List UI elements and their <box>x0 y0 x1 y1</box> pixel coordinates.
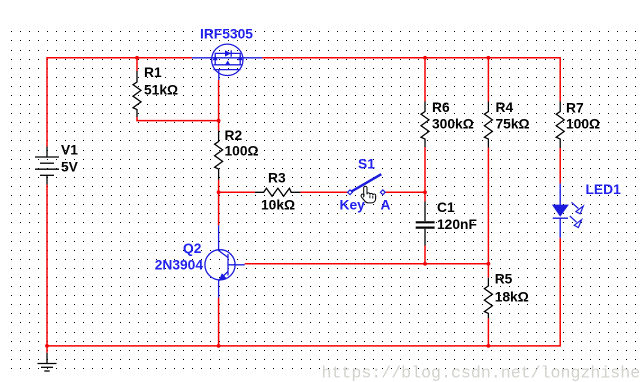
junction top rail / R6 <box>423 56 427 60</box>
junction top rail / R1 <box>135 56 139 60</box>
ground <box>38 353 57 371</box>
resistor R6 <box>421 102 429 148</box>
resistor R4 <box>484 102 492 148</box>
svg-text:300kΩ: 300kΩ <box>432 117 474 132</box>
junction base row / R4 / R5 <box>487 262 491 266</box>
transistor Q2 2N3904 (NPN) <box>205 225 245 297</box>
svg-text:R4: R4 <box>496 100 514 115</box>
svg-text:51kΩ: 51kΩ <box>144 82 178 97</box>
resistor R5 <box>484 278 492 319</box>
wire node to R2 top <box>218 121 220 131</box>
svg-text:10kΩ: 10kΩ <box>261 198 295 213</box>
wire R6 bottom to S1 row node <box>424 147 426 192</box>
capacitor C1 <box>416 202 435 246</box>
junction top rail / R4 <box>487 56 491 60</box>
LED1 emission arrows <box>570 202 584 227</box>
svg-text:75kΩ: 75kΩ <box>496 117 530 132</box>
resistor R2 <box>215 131 223 180</box>
wire right rail top (top rail to R7) <box>559 57 561 101</box>
svg-text:S1: S1 <box>358 156 375 171</box>
wire R3 row left segment <box>219 191 255 193</box>
svg-text:V1: V1 <box>61 142 78 157</box>
resistor R7 <box>556 101 564 148</box>
resistor R1 <box>133 71 141 117</box>
wire C1 bottom to base row node <box>424 246 426 264</box>
wire R2 node down to Q2 collector <box>218 192 220 225</box>
svg-text:100Ω: 100Ω <box>225 144 259 159</box>
svg-text:Key: Key <box>340 197 366 212</box>
wire R4 top lead from top rail <box>487 58 489 102</box>
svg-text:C1: C1 <box>437 200 455 215</box>
svg-text:LED1: LED1 <box>586 182 622 197</box>
MOSFET U1 IRF5305 (PMOS) <box>192 44 263 80</box>
wire R1 top lead from top rail <box>136 58 138 71</box>
junction R2 bottom / R3 row <box>217 190 221 194</box>
junction bottom rail / R5 <box>487 344 491 348</box>
wire node to C1 top <box>424 192 426 201</box>
svg-text:R6: R6 <box>432 100 450 115</box>
svg-text:2N3904: 2N3904 <box>155 258 204 273</box>
svg-text:R5: R5 <box>495 272 513 287</box>
wire top rail left segment <box>47 57 192 59</box>
wire ground stub below junction <box>46 346 48 353</box>
battery V1 <box>35 147 59 185</box>
svg-text:IRF5305: IRF5305 <box>200 26 253 41</box>
wire R6 top lead from top rail <box>424 58 426 102</box>
switch S1 <box>348 174 386 195</box>
wire R4 bottom long lead to base row <box>487 148 489 264</box>
svg-text:R1: R1 <box>144 65 162 80</box>
wire left rail lower (battery to bottom rail) <box>46 185 48 346</box>
wire R1 bottom to gate node (L-shape) <box>137 117 219 121</box>
wire R2 bottom to R3 row node <box>218 180 220 193</box>
hand cursor over S1 <box>361 186 376 203</box>
junction C1 bottom / base row <box>423 262 427 266</box>
junction bottom rail / ground <box>45 344 49 348</box>
svg-text:R2: R2 <box>225 128 243 143</box>
wire Q2 emitter to bottom rail <box>218 298 220 346</box>
LED LED1 <box>553 183 568 237</box>
wire right rail R7 to LED1 <box>559 148 561 183</box>
svg-text:R7: R7 <box>566 101 584 116</box>
svg-text:100Ω: 100Ω <box>566 117 600 132</box>
wire bottom rail <box>47 345 560 347</box>
svg-text:Q2: Q2 <box>183 241 202 256</box>
LED1 triangle <box>552 205 569 217</box>
wire S1 to C1/R6 node <box>386 191 426 193</box>
svg-text:A: A <box>381 197 391 212</box>
wire MOSFET gate to node (vertical) <box>218 80 220 121</box>
resistor R3 <box>255 188 300 196</box>
junction gate node R1/R2 <box>217 119 221 123</box>
svg-text:120nF: 120nF <box>437 217 477 232</box>
svg-text:5V: 5V <box>61 160 79 175</box>
svg-text:https://blog.csdn.net/longzhis: https://blog.csdn.net/longzhishe <box>322 364 641 382</box>
svg-text:18kΩ: 18kΩ <box>495 289 529 304</box>
svg-text:R3: R3 <box>268 171 286 186</box>
wire left rail upper (top rail to battery) <box>46 57 48 146</box>
wire R5 bottom to bottom rail <box>487 318 489 346</box>
wire top rail right segment <box>262 57 560 59</box>
junction bottom rail / Q2 emitter <box>217 344 221 348</box>
wire R3 to switch S1 <box>300 191 347 193</box>
wire Q2 base row horizontal <box>245 263 489 265</box>
wire right rail LED1 to bottom rail <box>559 238 561 347</box>
wire base row node to R5 top <box>487 264 489 278</box>
junction S1 row / R6 / C1 <box>423 190 427 194</box>
